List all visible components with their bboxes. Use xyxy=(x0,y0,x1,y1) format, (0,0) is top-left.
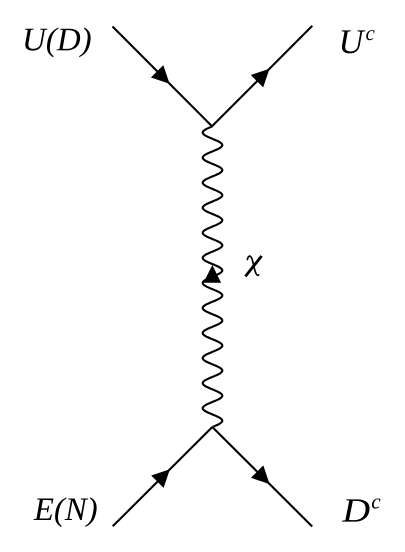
fermion line Uc outgoing top-right xyxy=(212,26,312,127)
label Dc base D xyxy=(342,499,370,521)
fermion line E(N) incoming bottom-left xyxy=(113,427,213,526)
fermion line Dc outgoing bottom-right xyxy=(212,427,312,527)
scalar propagator chi (wavy line) xyxy=(203,126,223,427)
label Uc base U xyxy=(342,30,366,53)
label E(N) xyxy=(34,497,97,527)
label U(D) xyxy=(25,27,91,57)
label Dc superscript c xyxy=(372,499,380,509)
fermion line U(D) incoming top-left xyxy=(113,27,213,127)
arrow on E(N) line xyxy=(151,469,170,488)
label chi xyxy=(245,256,261,276)
arrow on Uc line xyxy=(251,69,270,88)
arrow on Dc line xyxy=(251,465,270,484)
arrow on U(D) line xyxy=(151,65,170,84)
arrow on chi propagator xyxy=(204,265,222,283)
label Uc superscript c xyxy=(366,30,374,40)
